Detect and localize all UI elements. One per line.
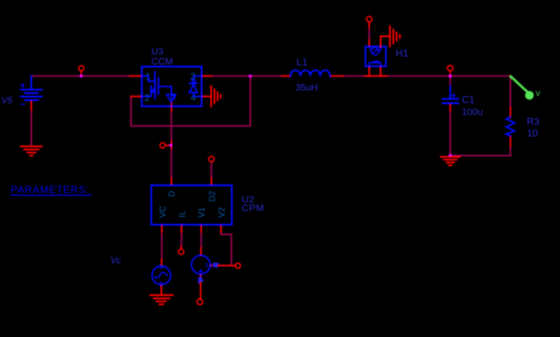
wire bubble to U2 pin D2	[210, 162, 212, 178]
ground below V5	[21, 146, 42, 155]
wire switch node rail U3 pin3 to L1	[212, 75, 282, 77]
svg-text:CCM: CCM	[151, 57, 173, 68]
wire H1 top stem	[368, 28, 370, 41]
pin stub H1 top	[368, 22, 370, 47]
H1 inner circle with arrow	[371, 48, 378, 55]
junction input rail	[80, 75, 83, 78]
junction output ground	[449, 154, 452, 157]
wire U2 V1 down	[200, 232, 202, 248]
wire battery bottom to ground	[30, 110, 32, 146]
pin stub U2 D2	[210, 178, 212, 185]
ground at U3 pin4 (sideways)	[211, 86, 220, 106]
svg-text:Vc: Vc	[111, 256, 122, 266]
svg-text:H1: H1	[396, 48, 409, 59]
pin stub C1 bottom	[449, 104, 451, 111]
pin stub duty node segments	[170, 102, 172, 185]
wire R3 bottom corner	[509, 146, 511, 155]
wire C1 top from rail	[449, 76, 451, 86]
wire duty node vertical to U2 pin D	[170, 111, 172, 141]
duty triangle circle	[171, 96, 175, 100]
svg-text:IL: IL	[177, 210, 187, 217]
node bubble D2	[209, 156, 214, 161]
op-amp box U2 CPM	[151, 185, 232, 224]
arrowhead into source right	[211, 263, 217, 269]
junction duty tap	[170, 144, 173, 147]
node bubble IL	[179, 249, 184, 254]
ground at H1 (sideways)	[381, 36, 390, 46]
wire feedback loop U3 pin2 to switch node	[131, 77, 250, 126]
wire source E bottom lead to bubble	[200, 274, 202, 299]
diode inside U3	[189, 76, 201, 96]
pin stub V1 source top	[200, 248, 202, 256]
svg-text:CPM: CPM	[242, 203, 265, 214]
source plus mark	[199, 270, 202, 273]
pin stub battery bottom	[30, 101, 32, 110]
inductor L1	[291, 70, 331, 76]
svg-text:V2: V2	[217, 207, 227, 218]
mosfet arrowhead	[153, 87, 156, 90]
duty triangle inside U3	[167, 95, 176, 103]
pin stub R3 top/bottom	[509, 107, 511, 146]
svg-text:D2: D2	[207, 191, 217, 202]
pin stub U3 pin2	[131, 95, 142, 97]
pin stub sine source top	[161, 259, 163, 266]
node bubble below source	[197, 299, 203, 305]
H1 inner top stubs	[370, 47, 380, 51]
svg-text:2: 2	[145, 93, 150, 103]
op-amp box U3 CCM	[142, 67, 202, 107]
wire rail L1 to output corner	[343, 75, 510, 77]
pin stub U3 pin4 to ground	[202, 95, 212, 97]
svg-text:L1: L1	[296, 58, 308, 69]
capacitor C1	[449, 86, 451, 98]
svg-text:V5: V5	[1, 95, 13, 105]
voltage marker V (green probe)	[511, 77, 527, 92]
pin stub L1 right	[330, 75, 343, 77]
node bubble right of source	[235, 263, 240, 268]
svg-text:V: V	[536, 91, 541, 98]
wire main input rail from V5 to U3 pin1	[31, 75, 130, 77]
ground output	[441, 157, 460, 165]
svg-text:PARAMETERS:: PARAMETERS:	[11, 185, 90, 196]
C1 plus mark	[452, 94, 455, 97]
svg-text:D: D	[166, 191, 176, 197]
pin stub sine bottom to ground	[160, 285, 162, 295]
ground below sine source	[150, 295, 173, 304]
transistor inside U3 (mosfet)	[142, 72, 172, 99]
battery V5 symbol	[21, 76, 42, 100]
pin stub H1 feet	[369, 66, 380, 76]
wire output bottom rail	[450, 155, 510, 157]
junction switch node on rail	[249, 75, 252, 78]
wire U2 V2 jog down to source E right lead	[221, 232, 231, 265]
svg-text:C1: C1	[462, 95, 475, 106]
H1 inner bottom sense path with arrow	[369, 63, 380, 66]
svg-text:V1: V1	[197, 207, 207, 218]
node bubble duty tap	[160, 143, 165, 148]
wire U2 IL down	[180, 232, 182, 247]
node bubble output rail	[447, 65, 453, 71]
wire R3 top from rail	[509, 76, 511, 107]
svg-text:10: 10	[527, 129, 539, 140]
controlled source at V1	[192, 255, 211, 274]
wire U2 VC to sine source	[161, 232, 163, 259]
wire source E right lead to bubble	[210, 265, 235, 267]
wire C1 bottom to ground junction	[449, 111, 451, 156]
battery minus mark	[21, 103, 25, 105]
pin stub L1 left	[282, 75, 291, 77]
node bubble on input rail	[79, 66, 84, 71]
arrowhead into source bottom	[198, 275, 204, 281]
transistor H1 sensor box	[366, 47, 386, 67]
pin stub U3 pin1	[130, 75, 142, 77]
resistor R3	[506, 117, 514, 136]
junction output rail	[449, 75, 452, 78]
pin stub IL bubble	[180, 247, 182, 250]
sine source at VC	[152, 266, 171, 285]
svg-text:100u: 100u	[462, 107, 483, 118]
pin stub U2 bottom pins	[162, 225, 221, 232]
pin stub U3 pin3	[202, 75, 212, 77]
red rail segment under H1	[365, 75, 387, 77]
node bubble H1 top	[367, 16, 372, 21]
battery plus mark	[21, 83, 25, 87]
svg-text:VC: VC	[157, 206, 167, 218]
source minus tick	[206, 263, 208, 267]
svg-text:35uH: 35uH	[295, 83, 318, 94]
svg-text:R3: R3	[527, 117, 540, 128]
